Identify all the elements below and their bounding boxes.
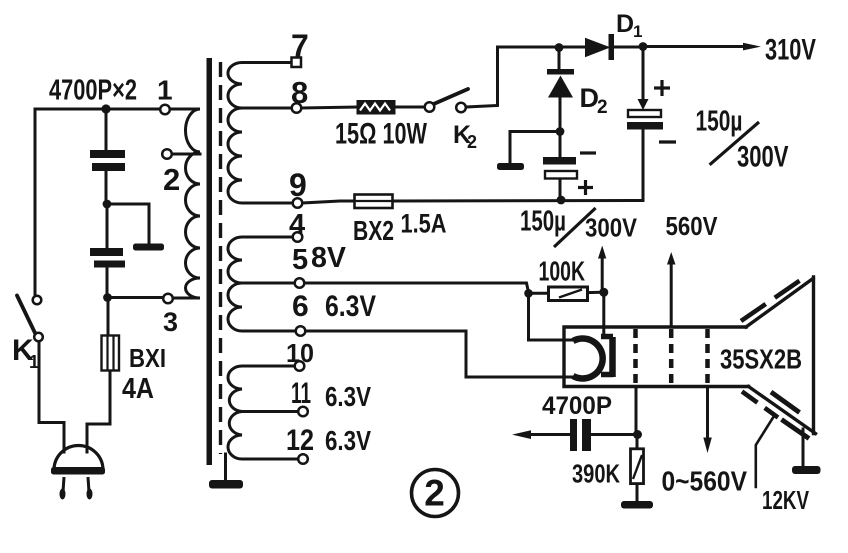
svg-text:7: 7 xyxy=(291,28,309,64)
svg-text:D: D xyxy=(616,10,634,38)
svg-text:100K: 100K xyxy=(539,256,586,287)
svg-text:11: 11 xyxy=(291,377,311,410)
svg-text:12KV: 12KV xyxy=(762,487,809,515)
svg-text:2: 2 xyxy=(467,132,477,152)
svg-text:8: 8 xyxy=(291,75,308,110)
svg-text:390K: 390K xyxy=(572,459,620,489)
svg-text:2: 2 xyxy=(597,97,608,118)
svg-text:4A: 4A xyxy=(122,373,154,405)
svg-text:6.3V: 6.3V xyxy=(325,425,371,456)
svg-text:6.3V: 6.3V xyxy=(325,381,371,412)
svg-text:2: 2 xyxy=(424,473,445,514)
svg-text:12: 12 xyxy=(286,424,314,457)
svg-text:0~560V: 0~560V xyxy=(662,466,748,497)
svg-text:1.5A: 1.5A xyxy=(401,209,447,239)
svg-text:6: 6 xyxy=(292,290,309,323)
svg-text:6.3V: 6.3V xyxy=(325,290,376,323)
svg-text:150µ: 150µ xyxy=(520,206,566,238)
svg-text:310V: 310V xyxy=(765,34,816,67)
svg-text:4: 4 xyxy=(289,209,305,241)
svg-text:9: 9 xyxy=(289,167,307,203)
svg-text:35SX2B: 35SX2B xyxy=(720,344,802,375)
svg-text:300V: 300V xyxy=(737,141,789,174)
svg-text:3: 3 xyxy=(163,307,178,337)
svg-text:1: 1 xyxy=(29,352,39,372)
svg-text:560V: 560V xyxy=(666,213,718,241)
svg-text:150µ: 150µ xyxy=(696,106,743,138)
svg-text:1: 1 xyxy=(633,22,642,41)
svg-text:BXI: BXI xyxy=(129,343,166,373)
svg-text:4700P: 4700P xyxy=(542,392,612,420)
svg-text:2: 2 xyxy=(163,162,180,197)
svg-text:4700P×2: 4700P×2 xyxy=(49,75,137,107)
svg-text:300V: 300V xyxy=(585,215,637,243)
svg-text:1: 1 xyxy=(157,75,173,106)
svg-text:BX2: BX2 xyxy=(353,215,394,246)
svg-text:8V: 8V xyxy=(311,242,347,274)
svg-text:5: 5 xyxy=(292,244,308,276)
svg-text:10: 10 xyxy=(286,338,314,368)
svg-text:15Ω 10W: 15Ω 10W xyxy=(335,118,427,151)
